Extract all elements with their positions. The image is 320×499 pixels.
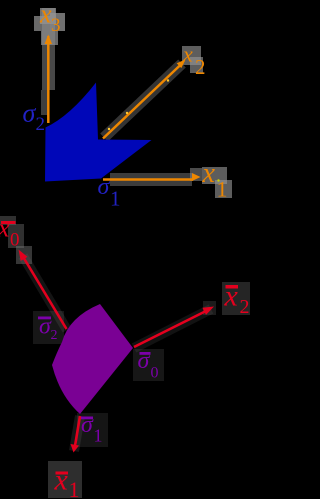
ray to x2 (diagonal) — [103, 63, 183, 139]
svg-text:2: 2 — [195, 55, 206, 79]
jpeg halo: label sbar2 box — [33, 311, 64, 344]
arrowhead ray x1 — [192, 173, 201, 181]
ray to xbar1 (down) — [75, 416, 81, 449]
ray to x1 (horizontal) — [103, 178, 193, 181]
jpeg halo: label xbar0 blocks — [0, 216, 16, 225]
label xbar1: overbar — [56, 472, 69, 475]
svg-text:1: 1 — [217, 177, 228, 202]
label xbar0: overbar — [1, 221, 16, 224]
jpeg halo: label x2 blocks — [182, 46, 201, 65]
jpeg halo: horizontal ray band — [110, 173, 192, 186]
jpeg halo: ray band to xbar0 — [23, 256, 67, 330]
jpeg halo: label xbar2 box — [222, 282, 250, 315]
ray to xbar0 (upper-left) — [22, 255, 67, 329]
svg-text:2: 2 — [51, 328, 58, 343]
svg-text:x: x — [0, 214, 10, 243]
svg-text:1: 1 — [110, 187, 121, 211]
svg-text:2: 2 — [36, 114, 46, 135]
label sbar1: overbar — [81, 417, 93, 420]
jpeg halo: ray band to xbar2 — [134, 309, 211, 348]
svg-text:3: 3 — [51, 15, 61, 36]
jpeg halo: label x1 blocks — [190, 168, 202, 181]
jpeg halo: label sbar0 box — [133, 349, 164, 381]
svg-text:1: 1 — [94, 426, 103, 446]
svg-text:σ: σ — [23, 99, 37, 128]
bright specks on diagonal ray — [108, 128, 110, 130]
jpeg halo: ray band to xbar1 — [74, 416, 80, 451]
jpeg halo: diagonal ray band — [104, 64, 182, 138]
ray to x3 (vertical) — [47, 36, 50, 123]
jpeg halo: label x3 blocks — [40, 8, 56, 24]
svg-text:2: 2 — [240, 296, 250, 318]
arrowhead ray xbar0 — [19, 250, 28, 261]
jpeg halo: label sbar1 box — [77, 413, 108, 447]
blue star polygon (union of cones) — [45, 83, 152, 182]
purple polygon (polytope) — [52, 304, 133, 414]
jpeg halo: label xbar1 box — [48, 461, 82, 498]
svg-text:σ: σ — [98, 174, 111, 200]
arrowhead ray x2 — [177, 60, 186, 69]
svg-text:x: x — [54, 464, 69, 497]
arrowhead ray xbar1 — [71, 444, 80, 453]
svg-text:x: x — [202, 158, 216, 189]
ray to xbar2 (right) — [134, 309, 210, 347]
svg-text:x: x — [182, 42, 193, 67]
svg-text:0: 0 — [10, 230, 20, 251]
arrowhead ray x3 — [45, 35, 52, 45]
svg-text:1: 1 — [69, 477, 80, 499]
label sbar2: overbar — [38, 317, 51, 320]
svg-text:0: 0 — [151, 365, 159, 382]
label sbar0: overbar — [140, 352, 151, 355]
svg-text:x: x — [224, 280, 239, 313]
svg-text:σ: σ — [138, 348, 151, 374]
jpeg halo: vertical ray band — [42, 8, 55, 90]
svg-text:σ: σ — [81, 412, 94, 438]
label xbar2: overbar — [226, 285, 239, 289]
arrowhead ray xbar2 — [202, 307, 214, 315]
